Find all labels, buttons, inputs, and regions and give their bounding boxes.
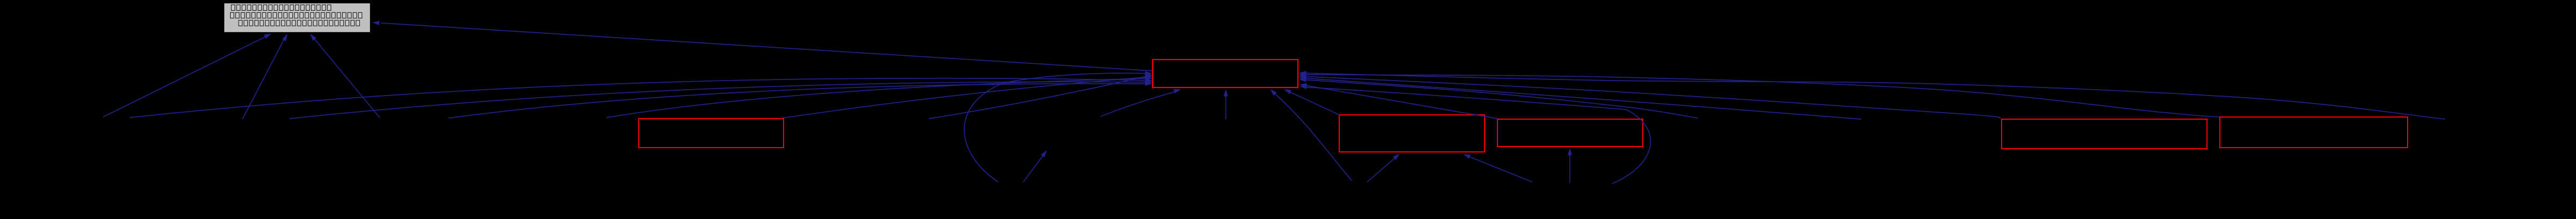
edge: far node E (x=4559) to central box (long flat spline) <box>1300 73 2445 119</box>
edge: red box D to central box (long flat spline) <box>1300 75 2219 117</box>
edge: far-left node to grey box (arrow into grey box bottom) <box>103 35 270 118</box>
edge: bottom node to red box A bottom-right (arrow up-left) <box>1465 155 1532 182</box>
node: red box A (two-line file node) <box>1339 115 1485 152</box>
node: red box D (file node) <box>2220 117 2408 148</box>
edge: bottom node (U-shaped spline) to central box left edge <box>964 73 1150 182</box>
node: red box C (file node) <box>2002 119 2207 149</box>
edge: left node 5 to central box <box>929 75 1152 119</box>
edge: red box A to central box bottom-right corner <box>1286 90 1339 115</box>
edge: left node 6 to central box bottom-left corner <box>1101 91 1179 116</box>
tofu glyph row 3 (23 missing-glyph boxes) <box>239 20 360 26</box>
edge: left node 1 to central box (flat spline) <box>130 78 1152 118</box>
edge: left node 2 to grey box (arrow into grey box bottom) <box>242 35 286 119</box>
edge: bottom node vertical arrow into central box bottom <box>1226 91 1227 119</box>
edge: left node 2 to central box (flat spline) <box>290 82 1152 119</box>
node: red box B (file node) <box>1497 119 1643 147</box>
node: grey note box (truncated-graph legend) <box>224 3 371 33</box>
tofu glyph row 2 (25 missing-glyph boxes) <box>231 12 362 18</box>
node: central red box (current file) <box>1153 60 1298 87</box>
tofu glyph row 1 (19 missing-glyph boxes) <box>231 5 331 10</box>
edge: red box C to central box (long flat spline) <box>1300 76 2001 118</box>
edge: bottom node to central box bottom (curved) <box>1272 91 1352 181</box>
edge: left node 3 to grey box (arrow into grey box bottom) <box>311 35 380 118</box>
edge: bottom node arrow into invisible middle-row node bottom <box>1023 152 1045 182</box>
edge: bottom node arc around red box B to central box right edge <box>1302 87 1650 184</box>
edge: right node (x=3165) to central box <box>1300 79 1697 118</box>
edge: bottom node to red box B bottom (vertical arrow) <box>1569 150 1570 183</box>
edge: red box B to central box right edge <box>1302 85 1497 119</box>
edge: central red box to grey box (long arrow into grey box right edge) <box>381 23 1152 71</box>
edge: bottom node to red box A bottom (arrow up-right) <box>1367 155 1398 182</box>
edge: left node 4 to central box (flat spline) <box>607 78 1152 118</box>
node: red box left (file node) <box>639 119 784 148</box>
edge: left node 3 to central box (flat spline) <box>448 84 1152 118</box>
edge: red box left to central box (spline from its top-right corner) <box>782 77 1152 118</box>
edge: right node (x=3470) to central box <box>1300 78 1861 119</box>
